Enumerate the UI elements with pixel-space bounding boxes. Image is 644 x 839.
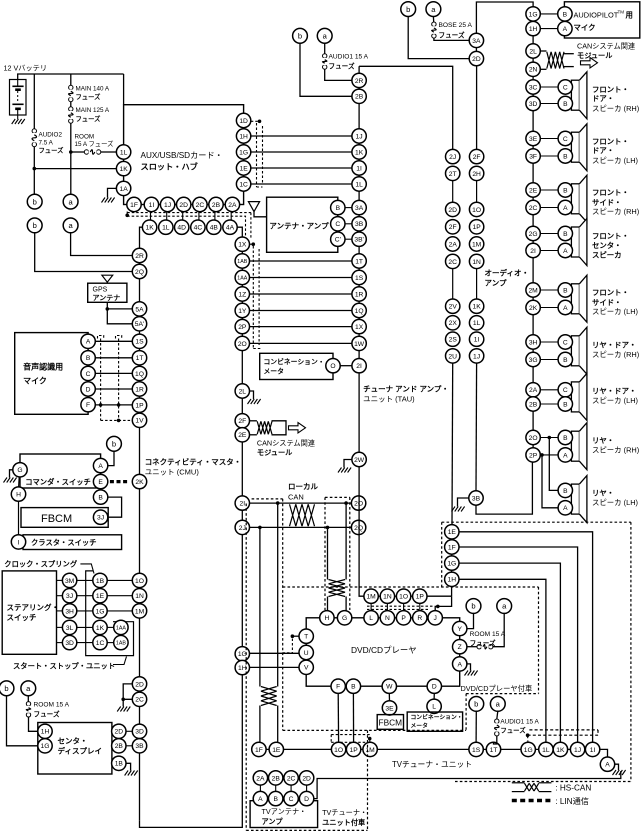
connector 2J (CMU right) [235, 520, 249, 534]
svg-text:メータ: メータ [264, 367, 285, 376]
wire D-1R [95, 388, 132, 390]
label speaker 5 [592, 288, 638, 316]
ground 2D/2C [117, 707, 130, 712]
connector 4B (row2) [207, 220, 221, 234]
connector P (dvd) [396, 611, 410, 625]
connector 2B (AUX bottom) [209, 197, 223, 211]
svg-text:フューズ: フューズ [39, 145, 65, 154]
connector 2C (CMU low) [132, 692, 146, 706]
connector 1E (tau bus) [445, 525, 459, 539]
svg-text:2B: 2B [529, 401, 538, 408]
svg-text:C: C [289, 796, 294, 803]
svg-text:スピーカ: スピーカ [592, 251, 622, 260]
connector 1S (tv tuner) [469, 742, 483, 756]
fuse AUDIO1 15A (tv) [494, 711, 540, 744]
svg-text:A: A [563, 505, 568, 512]
wire 3L-1K [77, 626, 93, 628]
connector A (tvant) [253, 791, 267, 805]
svg-text:1R: 1R [355, 291, 364, 298]
wire 1B-1O [107, 579, 132, 581]
svg-text:B: B [563, 287, 568, 294]
svg-text:1B: 1B [96, 578, 105, 585]
svg-text:サイド・: サイド・ [592, 198, 622, 207]
connector 3H (steering) [62, 604, 76, 618]
svg-text:1F: 1F [255, 747, 263, 754]
connector 2E (spk3) [526, 183, 540, 197]
svg-text:I: I [18, 539, 20, 546]
svg-text:B: B [273, 796, 278, 803]
svg-text:アンテナ: アンテナ [93, 294, 121, 302]
svg-text:1K: 1K [556, 747, 565, 754]
svg-text:1G: 1G [96, 608, 105, 615]
connector 3C (spk1) [526, 80, 540, 94]
connector 1P (bus) [413, 589, 427, 603]
connector B (spk8) [558, 430, 572, 444]
svg-text:2B: 2B [115, 743, 124, 750]
svg-text:A: A [258, 796, 263, 803]
svg-text:B: B [563, 357, 568, 364]
connector 1G (tv tuner) [521, 742, 535, 756]
label start stop unit [13, 657, 127, 671]
symbol local CAN twist [290, 504, 315, 526]
svg-text:1O: 1O [334, 747, 343, 754]
wire B to 3J [108, 497, 122, 517]
svg-text:3F: 3F [529, 153, 537, 160]
svg-text:1F: 1F [448, 544, 456, 551]
svg-text:1O: 1O [472, 207, 481, 214]
connector 2D (amp feed) [469, 51, 483, 65]
wire shield 1X dashed pair [250, 244, 262, 348]
svg-text:チューナ アンド アンプ・: チューナ アンド アンプ・ [363, 384, 449, 394]
connector 1L (amp right) [469, 316, 483, 330]
wire 2P-1X [250, 326, 354, 328]
unit center display [38, 723, 112, 775]
connector 2B (TAU) [352, 89, 366, 103]
junction LIN below 1F [125, 214, 129, 218]
connector A (spk8) [558, 448, 572, 462]
svg-text:A: A [563, 248, 568, 255]
connector 2D (amp left) [446, 202, 460, 216]
connector 2D (display) [112, 724, 126, 738]
wire amp right spine [475, 48, 477, 52]
svg-text:TM: TM [618, 9, 625, 14]
svg-text:ROOM 15 A: ROOM 15 A [470, 631, 506, 638]
svg-text:1H: 1H [41, 729, 50, 736]
svg-text:1M: 1M [135, 608, 145, 615]
svg-text:4D: 4D [177, 225, 186, 232]
wire a to fuse to 2R [322, 43, 351, 80]
connector 3G (spk6) [526, 352, 540, 366]
connector A (spk9) [558, 501, 572, 515]
svg-text:BOSE 25 A: BOSE 25 A [439, 22, 473, 29]
unit FBCM lower [377, 715, 403, 730]
svg-text:2U: 2U [448, 353, 457, 360]
svg-text:ユニット付車: ユニット付車 [322, 818, 365, 827]
connector 2F (amp right) [469, 149, 483, 163]
svg-text:1AA: 1AA [116, 625, 126, 631]
connector 1V (CMU) [132, 413, 146, 427]
unit combination meter lower [407, 712, 462, 731]
wire amp spine top [476, 2, 533, 33]
svg-text:1P: 1P [473, 224, 482, 231]
junction LIN 1G tv [526, 733, 530, 737]
svg-text:5A: 5A [135, 306, 144, 313]
wire T stub [292, 635, 299, 637]
speaker 4 [571, 219, 587, 266]
svg-text:2L: 2L [529, 48, 537, 55]
svg-text:フューズ: フューズ [500, 726, 526, 735]
svg-text:C': C' [335, 237, 341, 244]
svg-text:V: V [304, 665, 309, 672]
wire dashed tv tuner box left [246, 504, 367, 831]
svg-text:U: U [304, 650, 309, 657]
svg-text:2L: 2L [239, 388, 247, 395]
connector 2U (amp left) [446, 349, 460, 363]
svg-text:1H: 1H [529, 26, 538, 33]
svg-text:1X: 1X [355, 324, 364, 331]
svg-text:1L: 1L [473, 320, 481, 327]
connector F (mic) [81, 398, 95, 412]
legend LIN [512, 796, 589, 806]
connector 2F (amp left) [446, 220, 460, 234]
svg-text:3A: 3A [472, 38, 481, 45]
svg-text:1J: 1J [356, 133, 363, 140]
wire b to A [108, 451, 114, 465]
svg-text:B: B [98, 495, 103, 502]
wire CMU bottom link [140, 675, 243, 827]
antenna symbol [248, 202, 266, 217]
svg-text:コンビネーション・: コンビネーション・ [264, 357, 325, 366]
svg-text:3D: 3D [65, 640, 74, 647]
svg-text:フューズ: フューズ [76, 114, 102, 123]
connector B (spk6) [558, 352, 572, 366]
svg-text:3E: 3E [385, 705, 394, 712]
svg-text:3L: 3L [66, 625, 74, 632]
connector 1K (amp right) [469, 299, 483, 313]
battery B1 [10, 80, 27, 116]
wire AUDIO2 branch [33, 74, 35, 194]
svg-text:O: O [330, 363, 335, 370]
wire LIN E-2K [110, 480, 128, 483]
svg-text:2X: 2X [449, 320, 458, 327]
svg-text:1T: 1T [355, 258, 363, 265]
wire C2-3B2 [345, 238, 352, 240]
connector A (audiopilot) [558, 21, 572, 35]
wire J to bus [435, 596, 451, 610]
connector B (spk9) [558, 483, 572, 497]
svg-text:3E: 3E [529, 136, 538, 143]
connector A (spk3) [558, 200, 572, 214]
svg-text:1E: 1E [240, 165, 249, 172]
connector B (spk7) [558, 397, 572, 411]
svg-text:音声認識用: 音声認識用 [23, 362, 63, 372]
speaker 9 rear LH [571, 476, 587, 523]
connector R (dvd) [413, 611, 427, 625]
ground battery [12, 115, 25, 124]
connector 3B (spk9 feed) [469, 491, 483, 505]
svg-text:B: B [563, 101, 568, 108]
svg-text:b: b [471, 602, 475, 611]
unit cluster switch [23, 535, 122, 550]
svg-text:フロント・: フロント・ [592, 85, 629, 94]
svg-text:フューズ: フューズ [76, 92, 102, 101]
node b row2 [27, 218, 42, 233]
connector 2D (AUX bottom) [177, 197, 191, 211]
wire CMU right spine [241, 237, 243, 661]
node b (dvd) [466, 599, 481, 614]
svg-text:R: R [417, 615, 422, 622]
connector B (dvd) [346, 679, 360, 693]
svg-text:3H: 3H [65, 608, 74, 615]
connector 1C (start-stop) [93, 635, 107, 649]
svg-text:1J: 1J [473, 353, 480, 360]
svg-text:3B: 3B [135, 743, 144, 750]
wire 2U down to 1E group [451, 363, 454, 524]
connector 2L (can) [526, 44, 540, 58]
connector F (dvd) [331, 679, 345, 693]
svg-text:クラスタ・スイッチ: クラスタ・スイッチ [31, 538, 97, 547]
wire 2D down to 2F [476, 66, 478, 150]
connector 1N (amp right) [469, 254, 483, 268]
connector 2I (TAU) [352, 359, 366, 373]
svg-text:L: L [432, 704, 436, 711]
wire 2J branch to 1F tv [259, 527, 261, 686]
svg-text:1N: 1N [472, 259, 481, 266]
svg-text:3G: 3G [529, 357, 538, 364]
connector 3D (steering) [62, 635, 76, 649]
wire 1E to 1I tv [459, 532, 593, 743]
svg-text:B: B [351, 684, 356, 691]
fuse AUDIO1 15A [293, 28, 333, 43]
ground AUX 1A [102, 188, 117, 202]
svg-text:D: D [86, 386, 91, 393]
connector 1E (start-stop) [93, 589, 107, 603]
wire twist to H [327, 597, 329, 611]
connector 1H (CMU low) [235, 660, 249, 674]
svg-text:フロント・: フロント・ [592, 232, 629, 241]
fuse MAIN 125A [69, 107, 110, 123]
connector 2Q (TAU) [351, 520, 365, 534]
svg-text:アンプ: アンプ [262, 817, 284, 826]
wire B-1T [95, 357, 132, 359]
svg-text:5A': 5A' [135, 321, 144, 328]
svg-text:1O: 1O [399, 594, 408, 601]
svg-text:モジュール: モジュール [257, 448, 293, 457]
connector 2K (spk5) [526, 300, 540, 314]
connector 1F (tv tuner) [252, 742, 266, 756]
wire F to 1O tv [337, 693, 339, 742]
label speaker 7 [592, 387, 638, 406]
connector 1AB (CMU right) [235, 254, 249, 268]
svg-text:C: C [563, 84, 568, 91]
wire 3M-1B [77, 579, 93, 581]
svg-text:ユニット (CMU): ユニット (CMU) [145, 468, 200, 477]
speaker 2 [571, 124, 587, 171]
svg-text:マイク: マイク [574, 23, 596, 32]
ground tv A [613, 764, 626, 775]
connector 1S (TAU) [352, 270, 366, 284]
wire TV tuner row [252, 749, 608, 757]
connector 1R (TAU) [352, 287, 366, 301]
svg-text:B: B [563, 153, 568, 160]
svg-text:フューズ: フューズ [439, 31, 465, 40]
svg-text:1P: 1P [350, 747, 359, 754]
connector 3B (TAU) [352, 217, 366, 231]
wire row2 bus to 2R [140, 227, 143, 248]
wire TAU spine [359, 66, 452, 596]
wire 1F to 1J tv [459, 547, 578, 742]
svg-text:1K: 1K [120, 166, 129, 173]
wire 3D-B [540, 103, 558, 105]
svg-text:1K: 1K [355, 149, 364, 156]
svg-text:1AB: 1AB [237, 259, 247, 265]
wire dashed big box right [442, 522, 631, 781]
connector 2X (amp left) [446, 316, 460, 330]
connector 1A (AUX) [116, 181, 130, 195]
connector 1P (tv tuner) [346, 742, 360, 756]
svg-text:J: J [434, 615, 437, 622]
svg-text:A: A [563, 26, 568, 33]
svg-text:フロント・: フロント・ [592, 288, 629, 297]
connector 4A (row2) [223, 220, 237, 234]
connector H (left) [11, 487, 25, 501]
connector 2K (CMU) [132, 474, 146, 488]
connector 1Z (CMU right) [235, 287, 249, 301]
svg-text:リヤ・ドア・: リヤ・ドア・ [592, 387, 636, 396]
node a (battery) [63, 194, 78, 209]
connector D (mic) [81, 382, 95, 396]
wire 2B-B [540, 403, 558, 405]
wire 1H-A [540, 28, 557, 30]
connector 1K (row2) [142, 220, 156, 234]
svg-text:オーディオ・: オーディオ・ [485, 268, 529, 278]
svg-text:b: b [4, 684, 8, 693]
svg-text:1P: 1P [135, 403, 144, 410]
svg-text:AUDIO1 15 A: AUDIO1 15 A [500, 719, 539, 726]
speaker 1 [571, 72, 587, 119]
label clock spring [4, 560, 94, 574]
wire 3H-C [540, 341, 558, 343]
symbol CAN module right [540, 51, 574, 69]
node b (tv) [469, 697, 484, 712]
wire 2D-3D [126, 730, 132, 732]
wire bus stubs to dvd [371, 603, 420, 610]
connector 2J (amp left) [446, 149, 460, 163]
svg-text:1C: 1C [96, 640, 105, 647]
symbol CAN module left [250, 421, 287, 435]
wire 1AA-1S [250, 277, 354, 279]
connector 1H (audiopilot) [526, 21, 540, 35]
ground commander G [4, 470, 17, 483]
svg-text:: LIN通信: : LIN通信 [555, 796, 589, 806]
wire 1Z-1R [250, 293, 354, 295]
svg-text:b: b [298, 32, 302, 41]
label AUDIO1 fuse [329, 54, 369, 71]
svg-text:1A: 1A [120, 186, 129, 193]
svg-text:3B': 3B' [354, 237, 363, 244]
unit AUX/USB/SD card slot hub [124, 105, 244, 205]
svg-text:3B: 3B [472, 495, 481, 502]
svg-text:1W: 1W [354, 341, 365, 348]
junction J bus [436, 605, 440, 609]
svg-text:7.5 A: 7.5 A [39, 139, 54, 146]
connector 1O (bus) [396, 589, 410, 603]
svg-text:1Q: 1Q [355, 308, 364, 315]
wire 2B-3B [126, 745, 132, 747]
connector B (spk1) [558, 96, 572, 110]
speaker 3 [571, 175, 587, 222]
svg-text:2O: 2O [529, 435, 538, 442]
svg-text:1G: 1G [239, 149, 248, 156]
fuse ROOM 15A (display) [26, 696, 69, 732]
symbol twist pair tv [261, 687, 277, 706]
svg-text:1F: 1F [130, 202, 138, 209]
svg-text:H: H [324, 615, 329, 622]
svg-text:1Q: 1Q [135, 371, 144, 378]
svg-text:C: C [335, 221, 340, 228]
connector 2O (CMU right) [235, 336, 249, 350]
connector 1O (amp right) [469, 202, 483, 216]
antenna GPS symbol [102, 275, 113, 283]
label speaker 1 [592, 85, 639, 113]
wire B to 1P tv [352, 693, 354, 742]
svg-text:A: A [605, 762, 610, 769]
wire 1H to TAU 1J [251, 135, 352, 137]
wire 1C to TAU 1L [251, 183, 352, 185]
svg-text:A: A [563, 205, 568, 212]
legend HS-CAN [512, 783, 592, 793]
connector 3A (TAU) [352, 200, 366, 214]
connector 3L [62, 620, 76, 634]
connector 1G (display) [38, 739, 52, 753]
wire W to 3E [388, 693, 390, 700]
svg-text:2H: 2H [472, 171, 481, 178]
connector G (dvd) [337, 611, 351, 625]
svg-text:1N: 1N [135, 593, 144, 600]
svg-text:1H: 1H [238, 665, 247, 672]
connector W (dvd) [382, 679, 396, 693]
svg-text:MAIN 125 A: MAIN 125 A [76, 107, 110, 114]
wire b to 2D [408, 17, 469, 59]
junction 1M shield [368, 737, 372, 741]
svg-text:1L: 1L [542, 747, 550, 754]
connector A (spk4) [558, 243, 572, 257]
connector L (meter2) [427, 699, 441, 713]
connector 1I (AUX bottom) [144, 197, 158, 211]
unit GPS antenna [88, 283, 127, 302]
junction mic shield F [99, 403, 103, 407]
connector 1G (audiopilot) [526, 7, 540, 21]
svg-text:A: A [86, 339, 91, 346]
svg-text:1K: 1K [473, 304, 482, 311]
wire TAU top to audio amp [359, 66, 453, 149]
svg-text:1E: 1E [96, 593, 105, 600]
wire b2 to 2Q [35, 233, 133, 272]
svg-text:G: G [342, 615, 347, 622]
wire twist to G [345, 597, 347, 611]
connector 1Q (TAU) [352, 303, 366, 317]
svg-text:1O: 1O [135, 578, 144, 585]
svg-text:1J: 1J [164, 202, 171, 209]
svg-text:2D: 2D [135, 681, 144, 688]
wire 2Q branch to H dvd [327, 527, 329, 579]
svg-text:2I: 2I [356, 363, 362, 370]
wire tvant stubs [260, 785, 306, 791]
fuse BOSE 25A [432, 17, 473, 41]
wire 1G-B [540, 13, 557, 15]
connector 1G (start-stop) [93, 604, 107, 618]
svg-text:C: C [86, 371, 91, 378]
